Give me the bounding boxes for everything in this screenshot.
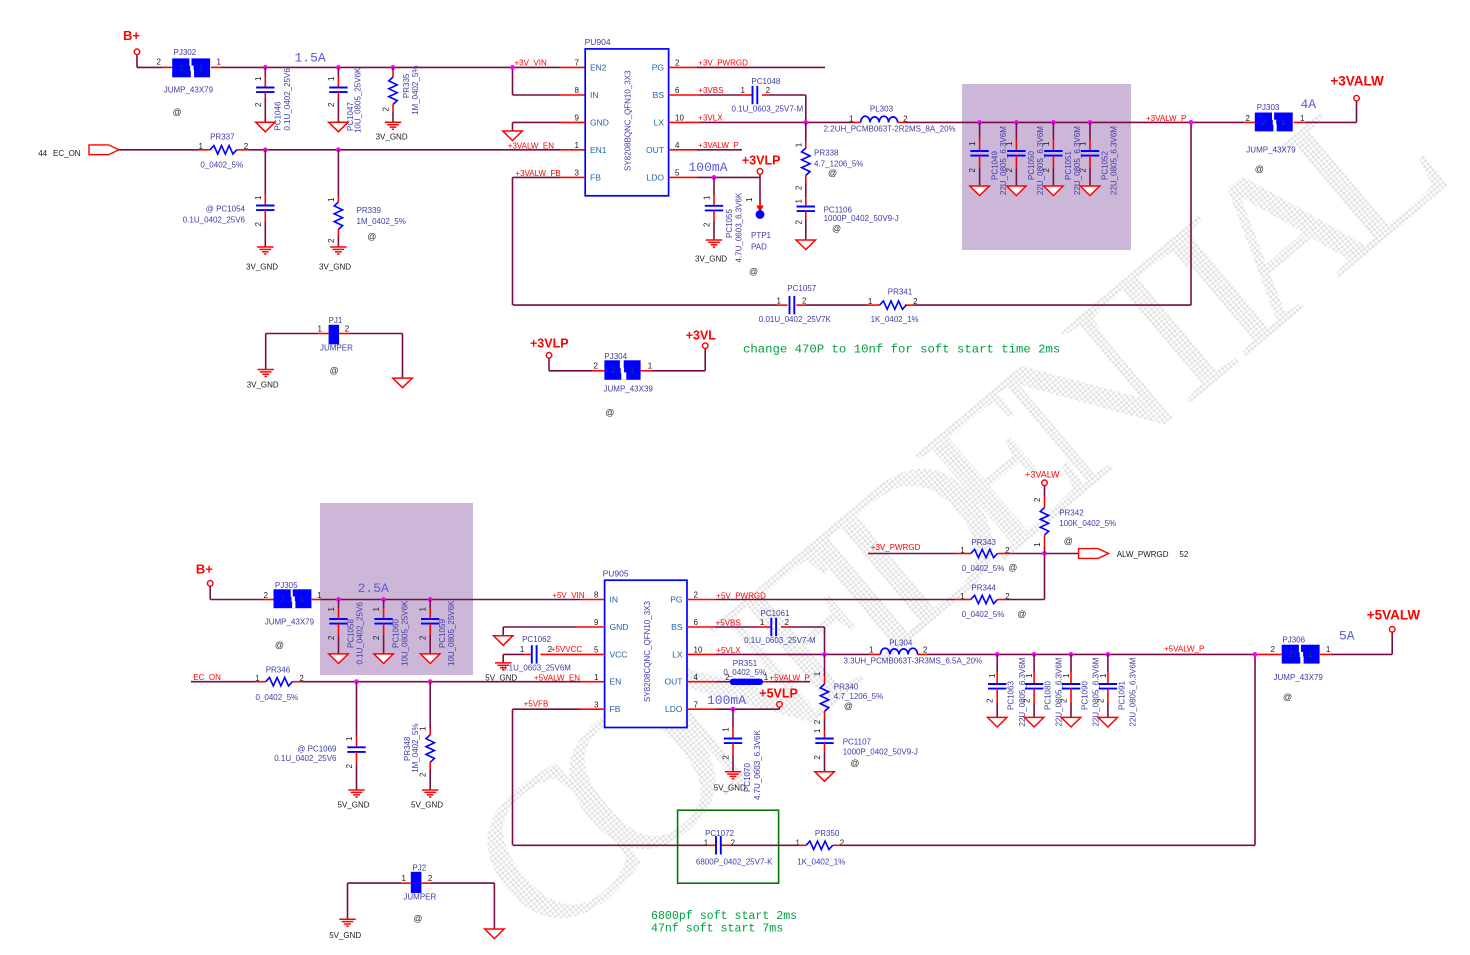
svg-text:52: 52 [1179,550,1188,559]
svg-text:2: 2 [968,168,977,173]
svg-text:EC_ON: EC_ON [53,149,81,158]
svg-text:2: 2 [179,64,184,73]
ground (PC1091) [1098,717,1117,727]
svg-text:3V_GND: 3V_GND [376,132,408,141]
svg-text:4.7_1206_5%: 4.7_1206_5% [814,160,863,169]
svg-text:2: 2 [731,839,736,848]
wire net EC_ON (bottom row) [191,681,605,683]
svg-text:+3VALW: +3VALW [1330,73,1384,88]
svg-text:2: 2 [794,220,803,225]
svg-text:6800pf soft start 2ms: 6800pf soft start 2ms [651,910,797,923]
svg-text:1: 1 [327,76,336,81]
svg-text:PJ305: PJ305 [275,581,298,590]
svg-text:5: 5 [594,646,599,655]
svg-text:22U_0805_6.3V6M: 22U_0805_6.3V6M [1092,657,1101,726]
svg-text:1: 1 [703,195,712,200]
svg-text:@ PC1054: @ PC1054 [206,205,246,214]
svg-text:2: 2 [1023,698,1032,703]
capacitor PC1055 [703,177,759,276]
svg-text:+5V_PWRGD: +5V_PWRGD [716,591,766,600]
svg-text:PU904: PU904 [585,37,611,47]
svg-text:2: 2 [372,635,381,640]
svg-text:2: 2 [840,838,845,847]
wire net +5V_PWRGD [687,553,1045,599]
svg-text:2.2UH_PCMB063T-2R2MS_8A_20%: 2.2UH_PCMB063T-2R2MS_8A_20% [824,124,956,133]
ground (PC1059) [421,654,440,664]
svg-text:4.7U_0603_6.3V6K: 4.7U_0603_6.3V6K [734,192,743,263]
capacitor PC1047 [327,67,363,133]
svg-text:2: 2 [1289,650,1294,659]
svg-text:1: 1 [796,838,801,847]
junction node B+ at PC1058 [336,597,341,602]
svg-text:2: 2 [1271,645,1276,654]
svg-text:6: 6 [694,618,699,627]
svg-text:+5VALW_P: +5VALW_P [769,673,809,682]
svg-text:5: 5 [675,169,680,178]
svg-text:4.7U_0603_6.3V6K: 4.7U_0603_6.3V6K [753,730,762,801]
svg-text:2: 2 [1033,497,1042,502]
svg-text:+5VFB: +5VFB [524,699,549,708]
svg-text:1: 1 [869,646,874,655]
resistor PR343 [960,538,1017,573]
svg-text:+5VLX: +5VLX [716,646,741,655]
svg-text:1: 1 [1078,141,1087,146]
svg-text:0.1U_0402_25V6: 0.1U_0402_25V6 [355,602,364,665]
junction nodes +5VALW_P at bulk caps [995,652,1111,657]
svg-text:10U_0805_25V6K: 10U_0805_25V6K [400,600,409,666]
svg-text:1: 1 [318,324,323,333]
ground (PC1063) [988,717,1007,727]
svg-text:GND: GND [610,622,629,632]
svg-text:@: @ [1017,609,1026,619]
svg-text:@ PC1069: @ PC1069 [297,745,337,754]
ground 5V_GND (PC1062) [485,663,517,683]
wire net +3VALW (top) [1294,101,1357,122]
wire net GND of PU904 to ground [513,122,586,131]
wire net +3VALW_P from OUT pin [669,149,742,151]
svg-text:PC1058: PC1058 [346,619,355,648]
junction node ALW_PWRGD [1042,551,1047,556]
wire net +3VLP from LDO pin [669,174,760,177]
svg-text:2: 2 [903,114,908,123]
svg-text:100K_0402_5%: 100K_0402_5% [1059,519,1116,528]
capacitor PC1049 [968,122,1008,195]
svg-text:PC1090: PC1090 [1080,681,1089,710]
ground 5V_GND (PC1069) [338,790,370,810]
svg-text:+3VALW: +3VALW [1025,470,1060,480]
svg-text:1: 1 [988,673,997,678]
svg-text:7: 7 [575,59,580,68]
svg-text:PG: PG [670,595,682,605]
svg-text:PC1061: PC1061 [761,609,790,618]
svg-text:2: 2 [264,591,269,600]
svg-text:EN1: EN1 [590,145,607,155]
svg-text:2: 2 [327,238,336,243]
jumper PJ1 [318,316,354,375]
svg-text:5V_GND: 5V_GND [411,801,443,810]
jumper PJ305 [264,581,323,650]
svg-text:4: 4 [694,673,699,682]
svg-text:1: 1 [777,297,782,306]
ground (PC1080) [1024,717,1043,727]
capacitor PC1063 [986,654,1027,726]
svg-text:+3V_VIN: +3V_VIN [515,59,547,68]
svg-text:B+: B+ [123,28,140,43]
ground (PC1090) [1061,717,1080,727]
svg-text:5V_GND: 5V_GND [485,674,517,683]
resistor PR346 [255,666,304,702]
junction node EC_ON at PR339 [336,147,341,152]
svg-text:2: 2 [428,874,433,883]
ground (PU905 GND) [494,636,513,646]
svg-text:JUMPER: JUMPER [403,893,436,902]
svg-text:10: 10 [675,114,684,123]
svg-text:2: 2 [281,595,286,604]
svg-text:2: 2 [244,142,249,151]
svg-text:@: @ [173,107,182,117]
svg-text:2: 2 [794,185,803,190]
svg-text:+3VALW_EN: +3VALW_EN [508,142,554,151]
svg-text:4.7_1206_5%: 4.7_1206_5% [834,692,883,701]
svg-text:1: 1 [1326,645,1331,654]
ground (top, PC1047) [329,122,348,132]
svg-text:0.1U_0402_25V6: 0.1U_0402_25V6 [183,216,246,225]
capacitor PC1050 [1005,122,1045,195]
svg-text:8: 8 [594,591,599,600]
wire net +3V_PWRGD to ALW_PWRGD [868,553,1080,555]
svg-text:PC1052: PC1052 [1101,151,1110,180]
svg-text:2: 2 [722,755,731,760]
svg-text:2: 2 [675,59,680,68]
junction node LX-BS (bottom) [822,652,827,657]
test pad PTP1 [745,177,772,251]
svg-text:LDO: LDO [647,172,665,182]
svg-text:@: @ [275,640,284,650]
wire net GND of PU905 to ground [503,627,604,636]
ground 3V_GND (PC1054) [246,247,278,272]
svg-text:OUT: OUT [646,145,664,155]
ground 5V_GND (PJ2) [329,919,361,940]
terminal B+ (bottom) [196,562,213,587]
jumper PJ2 [402,864,437,924]
ground (PC1051) [1044,186,1063,196]
svg-text:1: 1 [722,727,731,732]
svg-text:1: 1 [199,64,204,73]
op-amp/regulator U1 PU904 [575,37,685,196]
svg-text:2: 2 [766,86,771,95]
ground 3V_GND (PC1055) [695,240,727,264]
svg-text:1: 1 [741,86,746,95]
svg-text:PTP1: PTP1 [751,231,772,240]
svg-text:1: 1 [1308,650,1313,659]
svg-text:5V_GND: 5V_GND [329,931,361,940]
svg-text:+3VBS: +3VBS [698,86,723,95]
svg-text:1: 1 [520,645,525,654]
svg-text:1: 1 [760,618,765,627]
junction node LDO at PC1055 [712,175,717,180]
svg-text:LDO: LDO [665,704,683,714]
svg-text:1: 1 [1033,542,1042,547]
ground 5V_GND (PC1070) [714,772,746,793]
svg-text:PC1046: PC1046 [273,101,282,130]
svg-text:2: 2 [254,102,263,107]
wire net +5VLX / +5VALW_P rail [687,654,1282,845]
svg-text:3V_GND: 3V_GND [246,263,278,272]
svg-text:VCC: VCC [610,649,628,659]
capacitor PC1051 [1042,122,1082,195]
svg-text:10U_0805_25V6K: 10U_0805_25V6K [354,67,363,133]
svg-text:PJ2: PJ2 [412,864,426,873]
svg-text:1: 1 [575,141,580,150]
svg-text:1: 1 [317,591,322,600]
svg-text:OUT: OUT [665,677,683,687]
wire PJ2 pin1 to ground [348,883,411,919]
svg-text:PL304: PL304 [889,638,913,647]
capacitor PC1052 [1078,122,1118,195]
svg-text:2: 2 [1096,698,1105,703]
wire net EC_ON (top row) [119,149,585,151]
svg-text:0_0402_5%: 0_0402_5% [200,161,243,170]
ground (PR338/PC1106) [796,240,815,250]
svg-text:0_0402_5%: 0_0402_5% [962,564,1005,573]
svg-text:3: 3 [575,169,580,178]
terminal +3VALW (bottom) [1025,470,1060,486]
svg-text:1K_0402_1%: 1K_0402_1% [797,858,845,867]
svg-text:@: @ [1008,562,1017,572]
ground (PC1060) [374,654,393,664]
svg-text:1: 1 [960,592,965,601]
svg-text:@: @ [1283,692,1292,702]
junction node +3V_VIN [510,65,515,70]
junction node EC_ON at PC1054 [263,147,268,152]
svg-text:PR346: PR346 [266,666,291,675]
resistor PR348 [403,682,434,790]
svg-text:2: 2 [345,764,354,769]
svg-text:+3V_PWRGD: +3V_PWRGD [698,59,748,68]
svg-text:PC1057: PC1057 [787,284,816,293]
svg-text:5V_GND: 5V_GND [714,783,746,792]
svg-text:1: 1 [1062,673,1071,678]
svg-text:1000P_0402_50V9-J: 1000P_0402_50V9-J [843,748,918,757]
svg-text:1: 1 [419,607,428,612]
svg-text:+5VLP: +5VLP [759,687,798,701]
resistor PR338 [794,122,863,197]
capacitor PC1069 [274,682,365,790]
svg-text:SY8208CQNC_QFN10_3X3: SY8208CQNC_QFN10_3X3 [643,601,652,702]
ground (PC1050) [1007,186,1026,196]
wire net +5VFB return path [513,709,1256,845]
svg-text:GND: GND [590,117,609,127]
svg-text:47nf soft start 7ms: 47nf soft start 7ms [651,923,783,936]
svg-text:EN2: EN2 [590,62,607,72]
svg-text:1: 1 [327,607,336,612]
svg-text:1: 1 [1042,141,1051,146]
capacitor PC1090 [1059,654,1100,726]
svg-text:PC1063: PC1063 [1007,681,1016,710]
inductor PL304 [844,638,983,665]
wire net +3VALW_FB return path [513,177,1192,305]
terminal +3VALW (top) [1330,73,1384,101]
junction node +3VALW_P feedback tap [1189,120,1194,125]
svg-text:22U_0805_6.3V6M: 22U_0805_6.3V6M [1129,657,1138,726]
capacitor PC1054 [183,150,275,247]
svg-text:PC1051: PC1051 [1064,151,1073,180]
capacitor PC1057 [759,284,832,324]
ground (PC1052) [1080,186,1099,196]
junction node EC_ON at PC1069 [354,679,359,684]
svg-text:PR344: PR344 [971,583,996,592]
capacitor PC1070 [722,709,762,800]
svg-text:2: 2 [913,297,918,306]
svg-text:JUMP_43X39: JUMP_43X39 [604,385,654,394]
ground (PJ1 pin2) [393,378,412,388]
svg-text:2: 2 [1078,168,1087,173]
svg-text:2: 2 [986,698,995,703]
svg-text:1: 1 [968,141,977,146]
svg-text:+3VLP: +3VLP [742,154,781,168]
wire net +3V_PWRGD (top) [669,66,825,68]
svg-text:7: 7 [694,700,699,709]
svg-text:0_0402_5%: 0_0402_5% [256,693,299,702]
svg-text:5V_GND: 5V_GND [338,801,370,810]
ground 3V_GND (PR335) [376,122,408,141]
svg-text:JUMPER: JUMPER [320,344,353,353]
svg-text:2: 2 [802,297,807,306]
svg-text:PC1050: PC1050 [1027,151,1036,180]
junction node B+ at PC1046 [263,65,268,70]
svg-text:3.3UH_PCMB063T-3R3MS_6.5A_20%: 3.3UH_PCMB063T-3R3MS_6.5A_20% [844,657,983,666]
junction node EC_ON at PR348 [428,679,433,684]
svg-text:PC1049: PC1049 [990,151,999,180]
jumper PJ302 [157,48,222,117]
ground (PJ2 pin2) [485,929,504,939]
capacitor PC1058 [327,600,364,665]
resistor PR339 [327,150,406,247]
svg-text:FB: FB [610,704,621,714]
svg-text:1: 1 [813,728,822,733]
capacitor PC1107 [813,728,918,772]
svg-text:44: 44 [38,149,47,158]
svg-text:10U_0805_25V6K: 10U_0805_25V6K [447,600,456,666]
svg-text:JUMP_43X79: JUMP_43X79 [164,86,214,95]
svg-text:PC1072: PC1072 [705,829,734,838]
inductor PL303 [824,104,956,133]
capacitor PC1106 [794,197,898,240]
wire PJ2 pin2 to ground [421,883,494,929]
svg-text:1: 1 [648,362,653,371]
svg-text:1: 1 [300,595,305,604]
svg-text:+3V_PWRGD: +3V_PWRGD [871,543,921,552]
svg-text:2: 2 [254,222,263,227]
svg-text:PJ304: PJ304 [604,352,627,361]
wire net B+ (bottom rail) [210,586,604,599]
svg-text:@: @ [330,365,339,375]
wire net +5VLP from LDO pin [687,707,780,709]
wire PJ1 pin2 to ground [339,334,402,379]
resistor PR350 [796,829,846,867]
svg-text:IN: IN [590,90,599,100]
svg-text:JUMP_43X79: JUMP_43X79 [265,618,315,627]
svg-text:1M_0402_5%: 1M_0402_5% [357,217,406,226]
svg-text:1: 1 [813,671,822,676]
svg-text:2: 2 [923,646,928,655]
junction node LDO at PC1070 [731,707,736,712]
capacitor PC1080 [1023,654,1064,726]
wire net +5VBS [687,627,825,654]
svg-text:1.5A: 1.5A [295,51,326,66]
svg-text:+5VVCC: +5VVCC [551,645,583,654]
svg-text:2: 2 [1246,114,1251,123]
svg-text:2: 2 [594,362,599,371]
svg-text:IN: IN [610,595,619,605]
svg-text:2: 2 [813,719,822,724]
svg-text:@: @ [850,758,859,768]
capacitor PC1046 [254,67,292,130]
capacitor PC1062 and VCC wire [502,635,605,672]
capacitor PC1048 [732,77,804,113]
svg-text:2: 2 [382,107,391,112]
svg-text:0.01U_0402_25V7K: 0.01U_0402_25V7K [759,315,832,324]
svg-text:PR350: PR350 [815,829,840,838]
terminal B+ (top) [123,28,140,55]
svg-text:+5V_VIN: +5V_VIN [552,591,584,600]
wire +3VLP to PJ304 [549,358,604,371]
resistor PR340 [813,654,883,730]
junction nodes +3VALW_P at bulk caps [977,120,1092,125]
svg-text:ALW_PWRGD: ALW_PWRGD [1117,550,1169,559]
svg-text:1: 1 [960,546,965,555]
svg-text:+3VLP: +3VLP [530,336,569,350]
svg-text:PJ303: PJ303 [1257,103,1280,112]
junction node B+ at PC1059 [428,597,433,602]
svg-text:+5VALW_EN: +5VALW_EN [534,674,580,683]
svg-text:2: 2 [419,635,428,640]
wire net B+ (top rail) [137,55,585,95]
terminal +5VALW [1367,607,1421,632]
svg-text:@: @ [832,224,841,234]
svg-text:22U_0805_6.3V6M: 22U_0805_6.3V6M [1110,126,1119,195]
svg-text:1: 1 [1281,118,1286,127]
resistor PR351 (zero ohm bar) and OUT wire [687,659,810,685]
terminal +3VLP (PJ304 side) [530,336,569,358]
svg-text:0.1U_0603_25V7-M: 0.1U_0603_25V7-M [744,636,816,645]
ground 3V_GND (PJ1) [247,370,279,390]
junction node B+ at PR335 [391,65,396,70]
svg-text:PC1080: PC1080 [1044,681,1053,710]
svg-text:PL303: PL303 [870,104,894,113]
svg-text:PR338: PR338 [814,148,839,157]
svg-text:2: 2 [785,618,790,627]
svg-text:+3VALW_P: +3VALW_P [698,141,738,150]
wire PJ304 to +3VL [641,349,706,371]
svg-text:2: 2 [703,222,712,227]
svg-text:1: 1 [594,673,599,682]
input port EC_ON (top) [38,145,119,158]
svg-text:@: @ [1255,164,1264,174]
svg-text:PC1107: PC1107 [843,738,872,747]
svg-text:1: 1 [254,76,263,81]
svg-text:PR351: PR351 [733,659,758,668]
output port ALW_PWRGD [1079,549,1189,560]
svg-text:4A: 4A [1301,97,1317,112]
capacitor PC1072 [696,829,773,866]
svg-text:0.1U_0402_25V6: 0.1U_0402_25V6 [283,68,292,131]
wire net +5VALW [1320,632,1392,654]
svg-text:@: @ [367,232,376,242]
capacitor PC1061 [744,609,816,645]
capacitor PC1091 [1096,654,1137,726]
watermark CONFIDENTIAL [424,40,1470,955]
